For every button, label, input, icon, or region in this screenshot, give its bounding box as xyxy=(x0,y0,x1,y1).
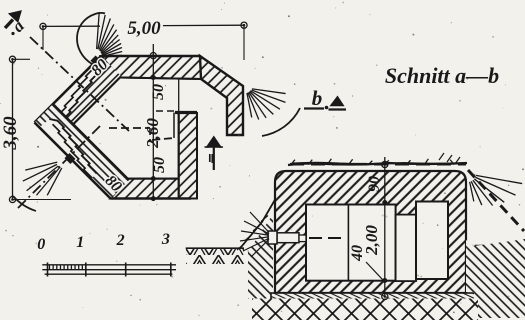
svg-text:50: 50 xyxy=(151,157,168,173)
svg-text:5,00: 5,00 xyxy=(127,18,161,39)
svg-text:3,60: 3,60 xyxy=(0,116,21,151)
svg-text:3: 3 xyxy=(161,231,170,248)
svg-text:40: 40 xyxy=(349,245,366,262)
svg-text:b: b xyxy=(312,86,323,110)
svg-text:Schnitt a—b: Schnitt a—b xyxy=(385,63,499,88)
svg-text:90: 90 xyxy=(366,176,383,192)
svg-text:50: 50 xyxy=(150,84,167,100)
svg-text:2: 2 xyxy=(116,232,125,249)
svg-text:0: 0 xyxy=(37,236,45,253)
svg-text:2,60: 2,60 xyxy=(143,118,162,149)
svg-text:1: 1 xyxy=(76,234,84,251)
